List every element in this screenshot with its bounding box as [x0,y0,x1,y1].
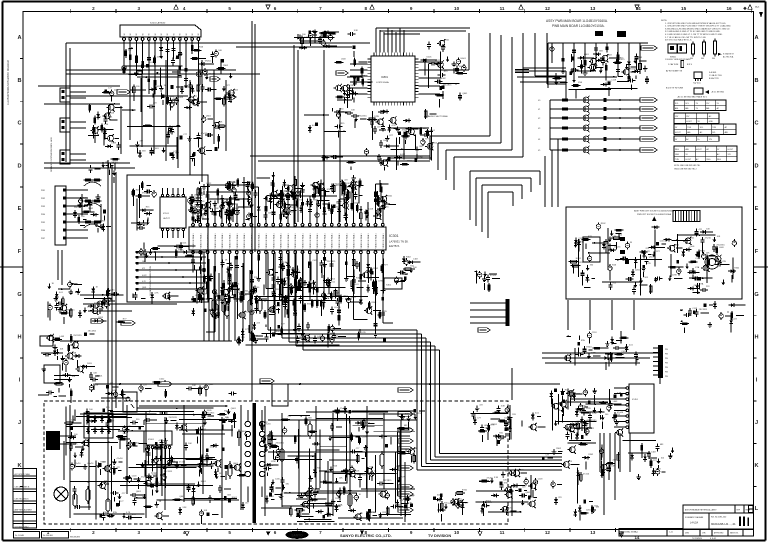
svg-text:VIDEO IN: VIDEO IN [354,239,356,248]
svg-text:V0: V0 [149,33,151,35]
svg-text:H.OUT: H.OUT [696,149,702,151]
svg-text:Q601: Q601 [231,408,237,410]
svg-text:47u/16: 47u/16 [614,247,621,249]
svg-text:SDA 1: SDA 1 [316,232,319,239]
svg-text:VIDEO IN: VIDEO IN [208,239,210,248]
svg-text:KTA: KTA [333,465,337,468]
svg-text:2SC1815: 2SC1815 [716,245,725,247]
svg-text:KTA: KTA [299,199,303,202]
svg-text:SDA 1: SDA 1 [375,232,378,239]
svg-text:IC601: IC601 [148,439,155,441]
svg-text:SDA 1: SDA 1 [272,232,275,239]
svg-text:VIDEO IN: VIDEO IN [230,239,232,248]
svg-text:VIDEO IN: VIDEO IN [346,239,348,248]
svg-text:V5: V5 [538,150,540,152]
svg-text:S.V AB IN ST: S.V AB IN ST [723,53,735,56]
svg-text:4.7K: 4.7K [603,67,608,69]
svg-text:SDA 1: SDA 1 [367,232,370,239]
svg-text:E: E [18,206,22,212]
svg-text:2SC1815: 2SC1815 [699,309,708,311]
svg-text:K: K [754,463,758,469]
svg-text:H.OUT: H.OUT [686,159,692,161]
svg-text:SDA 1: SDA 1 [382,232,385,239]
svg-text:D: D [17,163,21,169]
svg-text:F60: F60 [701,58,704,60]
svg-text:EG01: EG01 [174,101,180,103]
svg-text:V0: V0 [136,33,138,35]
svg-text:VIDEO IN: VIDEO IN [310,239,312,248]
svg-text:VIDEO IN: VIDEO IN [361,239,363,248]
svg-text:EG01: EG01 [462,489,468,491]
svg-text:PIN1: PIN1 [41,190,45,192]
svg-text:VR201: VR201 [386,196,393,198]
svg-text:VIDEO IN: VIDEO IN [303,239,305,248]
svg-text:SDA 1: SDA 1 [243,232,246,239]
svg-text:+B DC MV GND: +B DC MV GND [711,92,725,94]
svg-text:1/2W: 1/2W [672,275,677,277]
svg-text:A: A [754,35,758,41]
svg-text:E: E [755,206,759,212]
svg-text:SDA 1: SDA 1 [287,232,290,239]
svg-text:90210AB-U2...,.41: 90210AB-U2...,.41 [711,522,736,526]
svg-text:PWB MAIN BOAR 1LG4B10Y0100A.: PWB MAIN BOAR 1LG4B10Y0100A. [552,24,605,28]
svg-text:1/2W: 1/2W [210,447,215,449]
svg-text:Rx 100-300: Rx 100-300 [43,535,53,537]
svg-text:EG01: EG01 [461,58,467,60]
svg-text:IC801: IC801 [381,75,388,79]
svg-text:KTA: KTA [113,511,117,514]
svg-text:S.SYSM .PCM 2: S.SYSM .PCM 2 [15,526,29,528]
svg-text:C-21: C-21 [669,532,673,534]
svg-text:APPROVED: APPROVED [714,532,724,535]
svg-text:KTA: KTA [504,481,508,484]
svg-text:V0: V0 [161,33,163,35]
svg-text:3: 3 [138,530,141,535]
svg-text:ASSY,PWB,MAIN PATTERN-B(-) ASS: ASSY,PWB,MAIN PATTERN-B(-) ASSY [685,509,717,512]
svg-text:SDA 1: SDA 1 [236,232,239,239]
svg-text:IC451: IC451 [632,399,639,401]
svg-text:2: 2 [92,530,95,535]
svg-text:AC YEL IN A: AC YEL IN A [723,55,734,58]
svg-text:VR201: VR201 [205,60,212,62]
svg-text:SDA 1: SDA 1 [331,232,334,239]
svg-text:IC601 LA78040: IC601 LA78040 [150,22,166,25]
svg-text:4.7K: 4.7K [612,236,617,238]
svg-text:VIDEO IN: VIDEO IN [383,239,385,248]
svg-text:VIDEO IN: VIDEO IN [324,239,326,248]
svg-text:2SC1815: 2SC1815 [88,331,97,333]
svg-text:5: 5 [228,530,231,535]
svg-text:2SC1815: 2SC1815 [276,442,285,444]
svg-text:ABL: ABL [675,107,678,110]
svg-text:V0: V0 [186,33,188,35]
svg-text:SM-SM-SM: SM-SM-SM [70,537,80,539]
svg-text:V1: V1 [538,109,540,111]
svg-text:10: 10 [454,530,460,535]
svg-text:15: 15 [681,6,687,11]
svg-text:IC101: IC101 [163,213,170,215]
svg-text:SANYO EL: SANYO EL [730,532,739,535]
svg-text:VIDEO IN: VIDEO IN [237,239,239,248]
svg-text:3.2 GND A GND S GND LT TD SC G: 3.2 GND A GND S GND LT TD SC GND GND TI … [665,30,721,33]
svg-text:B: B [17,78,21,84]
svg-text:47u/16: 47u/16 [179,462,186,464]
svg-text:REF: REF [737,510,740,512]
svg-text:SDA 1: SDA 1 [309,232,312,239]
svg-text:7: 7 [319,530,322,535]
svg-text:SDA 1: SDA 1 [199,232,202,239]
svg-text:10: 10 [454,6,460,11]
svg-text:VIDEO IN: VIDEO IN [288,239,290,248]
svg-text:2SC1815: 2SC1815 [73,335,82,337]
svg-text:SDA 1: SDA 1 [265,232,268,239]
svg-text:F60: F60 [712,58,715,60]
svg-text:12: 12 [545,6,551,11]
svg-text:REG: REG [707,159,711,161]
svg-text:ASSY PWB CRT SOCKET 1LG4B10Y03: ASSY PWB CRT SOCKET 1LG4B10Y0300A [634,210,675,213]
svg-text:SCHEMATIC DIAGRAM: SCHEMATIC DIAGRAM [685,516,704,519]
svg-text:PIN6: PIN6 [41,230,45,232]
svg-text:47u/16: 47u/16 [490,275,497,277]
svg-text:NOTE: GND LINE RW GND TBL: NOTE: GND LINE RW GND TBL [674,165,700,167]
svg-text:SANYO ELECTRIC CO.,LTD.: SANYO ELECTRIC CO.,LTD. [340,533,392,538]
svg-text:SDA 1: SDA 1 [258,232,261,239]
svg-text:2.5 VA-DC Y/BL: 2.5 VA-DC Y/BL [709,74,722,77]
svg-text:VIDEO IN: VIDEO IN [244,239,246,248]
svg-text:IC301: IC301 [389,234,399,238]
svg-text:A: A [17,35,21,41]
svg-text:4: 4 [183,6,186,11]
svg-text:47u/16: 47u/16 [617,412,624,414]
svg-text:GND: GND [675,154,680,156]
svg-text:SDA 1: SDA 1 [360,232,363,239]
svg-text:AV IN TW ANTY IN: AV IN TW ANTY IN [666,69,683,72]
svg-text:V0: V0 [124,33,126,35]
svg-text:NOTE:: NOTE: [661,20,668,22]
svg-text:12: 12 [545,530,551,535]
svg-text:J: J [755,420,758,426]
svg-text:H.OUT: H.OUT [675,132,681,134]
svg-text:F: F [18,249,22,255]
svg-text:SCL: SCL [712,132,716,134]
svg-text:SDA 1: SDA 1 [302,232,305,239]
svg-text:ABL: ABL [687,131,690,134]
svg-text:3.3K: 3.3K [283,262,288,264]
svg-text:SDA 1: SDA 1 [207,232,210,239]
svg-text:◆: ◆ [743,6,747,11]
svg-text:3.3K: 3.3K [231,182,236,184]
svg-text:47u/16: 47u/16 [487,477,494,479]
svg-text:VIDEO IN: VIDEO IN [273,239,275,248]
svg-text:F: F [755,249,759,255]
svg-text:47u/16: 47u/16 [583,474,590,476]
svg-text:V0: V0 [130,33,132,35]
svg-text:SDA 1: SDA 1 [192,232,195,239]
svg-text:SDA 1: SDA 1 [214,232,217,239]
svg-text:C: C [17,121,21,127]
svg-text:VIDEO IN: VIDEO IN [317,239,319,248]
svg-text:14: 14 [635,535,640,540]
svg-text:SDA 1: SDA 1 [229,232,232,239]
svg-text:47u/16: 47u/16 [117,458,124,460]
svg-text:H.OUT: H.OUT [728,149,734,151]
svg-text:REG: REG [675,149,679,151]
svg-text:7: 7 [319,6,322,11]
svg-text:0.022: 0.022 [484,506,490,508]
svg-text:1LG4B10Y0160A SCHEMATIC DIAGRA: 1LG4B10Y0160A SCHEMATIC DIAGRAM [7,60,10,105]
svg-text:4.7K: 4.7K [392,125,397,127]
svg-text:PIN5: PIN5 [41,222,45,224]
svg-text:B: B [754,78,758,84]
svg-text:PIN7: PIN7 [41,238,45,240]
svg-text:EG01: EG01 [201,481,207,483]
svg-text:0.022: 0.022 [159,379,165,381]
svg-text:47u/16: 47u/16 [87,463,94,465]
svg-text:1/2W: 1/2W [374,116,379,118]
svg-text:KTA: KTA [581,339,585,342]
svg-text:VIDEO IN: VIDEO IN [332,239,334,248]
svg-text:1/2W: 1/2W [276,306,281,308]
svg-text:+B1 DC MV GND WAS TRADE TID 1: +B1 DC MV GND WAS TRADE TID 1 [677,96,707,99]
svg-text:ASSY PWB MAIN BOAR 1LG4B10Y016: ASSY PWB MAIN BOAR 1LG4B10Y0160A. [546,19,608,23]
svg-text:1/2W: 1/2W [721,261,726,263]
svg-text:SDA 1: SDA 1 [353,232,356,239]
svg-text:VIDEO IN: VIDEO IN [200,239,202,248]
svg-text:13: 13 [590,530,596,535]
svg-text:B.U B YE TW TUNE: B.U B YE TW TUNE [666,88,684,90]
svg-text:Q601: Q601 [690,246,696,248]
svg-text:LA76931 7N 58.: LA76931 7N 58. [389,240,409,244]
svg-text:PIN2: PIN2 [41,198,45,200]
svg-text:S.GN,GND,DC-RT,GND.MODEL GND L: S.GN,GND,DC-RT,GND.MODEL GND LOADED A T … [665,27,730,30]
svg-text:2SC1815: 2SC1815 [169,417,178,419]
svg-text:EG01: EG01 [587,347,593,349]
svg-text:ABL: ABL [725,131,728,134]
svg-text:SCL: SCL [675,103,679,105]
svg-text:9: 9 [410,530,413,535]
svg-text:SPEAKER OUT/SUB PHONES JACK: SPEAKER OUT/SUB PHONES JACK [50,137,53,172]
svg-text:KTA: KTA [578,81,582,84]
svg-text:V4: V4 [538,139,540,141]
svg-text:X301: X301 [386,285,392,287]
svg-text:F60: F60 [690,58,693,60]
svg-text:K A GND: K A GND [709,71,717,74]
svg-text:CKS TECHNICS: CKS TECHNICS [15,499,30,501]
svg-text:D: D [754,163,758,169]
svg-text:VIDEO IN: VIDEO IN [339,239,341,248]
svg-text:47u/16: 47u/16 [705,238,712,240]
svg-text:3.3K: 3.3K [104,124,109,126]
svg-text:SCL: SCL [700,127,704,129]
svg-text:9: 9 [410,6,413,11]
svg-text:VIDEO IN: VIDEO IN [295,239,297,248]
svg-text:V0: V0 [173,33,175,35]
svg-text:KTA: KTA [700,283,704,286]
svg-text:KTA: KTA [199,46,203,49]
svg-text:Top View: Top View [693,83,701,85]
svg-text:V0: V0 [167,33,169,35]
svg-text:SANYO: SANYO [291,534,303,538]
svg-text:4.7K: 4.7K [592,413,597,415]
svg-text:A SYSTEM CHAS: A SYSTEM CHAS [15,473,31,476]
svg-text:16: 16 [726,6,732,11]
svg-text:V0: V0 [155,33,157,35]
svg-text:V0: V0 [198,33,200,35]
svg-text:G: G [754,292,758,298]
svg-text:Ref. No 21E1-500: Ref. No 21E1-500 [711,517,726,519]
svg-text:11: 11 [500,530,505,535]
svg-text:V0: V0 [180,33,182,35]
svg-text:TV DIVISION: TV DIVISION [428,533,451,538]
svg-text:H: H [17,335,21,341]
svg-text:13: 13 [590,6,596,11]
svg-text:V0: V0 [538,100,540,102]
svg-text:V0: V0 [192,33,194,35]
svg-text:PWB CRT SOCKET 1LG4B10Y0310A: PWB CRT SOCKET 1LG4B10Y0310A [637,213,672,216]
svg-text:SDA 1: SDA 1 [338,232,341,239]
svg-text:C: C [754,121,758,127]
svg-text:VIDEO IN: VIDEO IN [376,239,378,248]
svg-text:G: G [17,292,21,298]
svg-text:B+: B+ [698,139,700,141]
svg-text:SDA 1: SDA 1 [345,232,348,239]
svg-text:AMP REPLACEMNT: AMP REPLACEMNT [15,509,33,512]
svg-text:1 CAV DOM: 1 CAV DOM [668,63,679,66]
svg-text:ABL: ABL [685,107,688,110]
svg-text:B.E ACT/YK: B.E ACT/YK [709,77,720,80]
svg-text:1/2W: 1/2W [111,143,116,145]
svg-text:SCL: SCL [685,103,689,105]
svg-text:REG: REG [717,159,721,161]
svg-text:8: 8 [365,6,368,11]
svg-text:47u/16: 47u/16 [334,307,341,309]
svg-text:11: 11 [500,6,505,11]
svg-text:V2: V2 [538,118,540,120]
svg-text:3.3K: 3.3K [354,30,359,32]
svg-text:1. CIRCUITS RE GND PLUS GND A: 1. CIRCUITS RE GND PLUS GND A SYSTEM S V… [665,22,726,25]
svg-text:0.022: 0.022 [112,390,118,392]
svg-text:DWG: DWG [685,533,690,535]
svg-text:E42757A: E42757A [389,245,400,248]
svg-text:VIDEO IN: VIDEO IN [266,239,268,248]
svg-text:GND: GND [709,121,714,123]
svg-text:EG01: EG01 [178,250,184,252]
svg-text:6: 6 [274,530,277,535]
svg-text:3.3K: 3.3K [501,406,506,408]
svg-text:3: 3 [138,6,141,11]
svg-text:6.E GTD GLD RALD ETS L.S.: 6.E GTD GLD RALD ETS L.S. [665,39,692,42]
svg-text:PIN4: PIN4 [41,214,45,216]
svg-text:1/2W: 1/2W [271,461,276,463]
svg-text:2SC1815: 2SC1815 [358,115,367,117]
svg-text:3.3K: 3.3K [182,507,187,509]
svg-text:SDA 1: SDA 1 [294,232,297,239]
svg-text:5. T LB LC AB GL CE LOW TTL SV: 5. T LB LC AB GL CE LOW TTL SVS TLC GB. [665,36,706,39]
svg-text:4.7K: 4.7K [154,292,159,294]
svg-text:4.7K: 4.7K [490,424,495,426]
svg-text:GND2 LINE RW GND TBL 2: GND2 LINE RW GND TBL 2 [674,169,697,171]
svg-text:1/2W: 1/2W [378,280,383,282]
svg-text:6: 6 [274,6,277,11]
svg-text:0.022: 0.022 [284,191,290,193]
svg-text:4.1 GND SOUND S GND LT. 1. RE: 4.1 GND SOUND S GND LT. 1. RE TT TD WITH… [665,34,723,36]
svg-text:V3: V3 [538,128,540,130]
svg-text:LC87F1GGA: LC87F1GGA [376,81,389,84]
svg-text:V0: V0 [142,33,144,35]
svg-text:VIDEO IN: VIDEO IN [368,239,370,248]
svg-text:VIDEO IN: VIDEO IN [193,239,195,248]
svg-text:Rx 1LG4B: Rx 1LG4B [15,535,24,537]
svg-text:0.022: 0.022 [170,132,176,134]
svg-text:VIDEO IN: VIDEO IN [281,239,283,248]
svg-text:VIDEO IN: VIDEO IN [222,239,224,248]
svg-text:ABL: ABL [706,107,709,110]
svg-text:2: 2 [92,6,95,11]
svg-text:VIDEO IN: VIDEO IN [259,239,261,248]
svg-text:AUDIO SECTIONAL: AUDIO SECTIONAL [428,115,449,118]
svg-text:L: L [755,506,759,512]
svg-text:SDA 1: SDA 1 [280,232,283,239]
svg-text:L4-U2A: L4-U2A [690,522,699,525]
svg-text:PIN3: PIN3 [41,206,45,208]
svg-text:J: J [18,420,21,426]
svg-text:LA7577: LA7577 [163,217,171,220]
svg-text:SDA 1: SDA 1 [221,232,224,239]
svg-text:B R S: B R S [687,64,693,66]
svg-text:H.OUT: H.OUT [686,121,692,123]
svg-text:SDA 1: SDA 1 [323,232,326,239]
svg-text:H: H [754,335,758,341]
svg-text:1 BLU/GY GRN GRY BY AVIS: 1 BLU/GY GRN GRY BY AVIS [665,58,691,61]
svg-text:5: 5 [228,6,231,11]
svg-text:ABL: ABL [686,148,689,151]
svg-text:KTA: KTA [612,264,616,267]
svg-text:3.3K: 3.3K [494,477,499,479]
svg-text:KTA: KTA [695,266,699,269]
svg-text:2. CIRCUITS RE GND PLUS GND TT: 2. CIRCUITS RE GND PLUS GND TT RE RT GRO… [665,25,731,28]
svg-text:VR201: VR201 [142,193,149,195]
svg-text:VIDEO IN: VIDEO IN [215,239,217,248]
